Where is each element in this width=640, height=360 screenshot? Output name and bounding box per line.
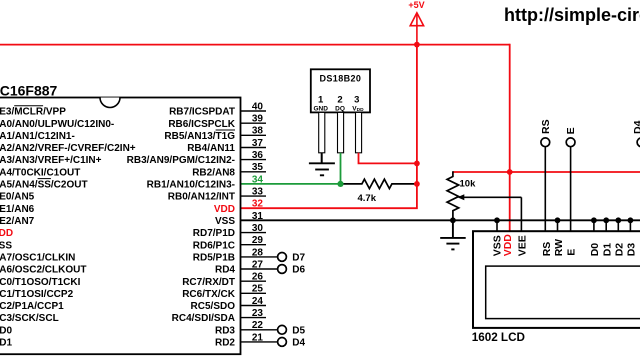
ground (DS18B20) xyxy=(309,163,335,175)
pin 17 RC2/P1A/CCP1 xyxy=(0,301,64,312)
svg-text:RB5/AN13/T1G: RB5/AN13/T1G xyxy=(164,131,235,142)
pin 40 RB7/ICSPDAT xyxy=(169,101,266,117)
svg-text:DS18B20: DS18B20 xyxy=(319,74,361,84)
pin 35 RB2/AN8 xyxy=(192,162,266,178)
svg-text:RC5/SDO: RC5/SDO xyxy=(191,301,236,312)
svg-text:RD5/P1B: RD5/P1B xyxy=(193,253,235,264)
terminal RS xyxy=(544,147,546,231)
svg-text:RE3/MCLR/VPP: RE3/MCLR/VPP xyxy=(0,107,66,118)
DS18B20 pin 1 lead xyxy=(319,112,325,152)
pin 3 RA1/AN1/C12IN1- xyxy=(0,131,75,142)
svg-text:RD1: RD1 xyxy=(0,338,12,349)
svg-text:RD6/P1C: RD6/P1C xyxy=(193,240,235,251)
pin 2 RA0/AN0/ULPWU/C12IN0- xyxy=(0,119,114,130)
svg-text:3: 3 xyxy=(354,95,359,106)
pin 26 RC7/RX/DT xyxy=(182,272,266,288)
svg-text:VEE: VEE xyxy=(516,235,528,256)
svg-text:D1: D1 xyxy=(602,243,614,257)
pin 28 RD5/P1B xyxy=(193,247,306,263)
pin 10 RE2/AN7 xyxy=(0,216,35,227)
svg-text:RS: RS xyxy=(541,242,553,257)
svg-text:RW: RW xyxy=(553,239,565,256)
IC notch xyxy=(100,98,120,108)
pin 7 RA5/AN4/SS/C2OUT xyxy=(0,179,88,191)
LCD pin VEE wire from pot wiper xyxy=(520,197,522,231)
LCD pin D2 wire (grounded) xyxy=(617,220,619,231)
pot wiper arrow xyxy=(463,196,522,198)
svg-text:RA0/AN0/ULPWU/C12IN0-: RA0/AN0/ULPWU/C12IN0- xyxy=(0,119,114,130)
svg-text:RB6/ICSPCLK: RB6/ICSPCLK xyxy=(168,119,235,130)
pin 30 RD7/P1D xyxy=(193,223,266,239)
svg-text:D7: D7 xyxy=(292,253,305,264)
svg-text:23: 23 xyxy=(252,308,264,319)
pin 21 RD2 xyxy=(215,332,306,348)
svg-text:VDD: VDD xyxy=(0,228,13,239)
svg-text:10k: 10k xyxy=(460,178,477,189)
pin 20 RD1 xyxy=(0,338,12,349)
LCD pin VSS wire xyxy=(496,220,498,231)
svg-text:37: 37 xyxy=(252,138,264,149)
pin 13 RA7/OSC1/CLKIN xyxy=(0,253,75,264)
svg-text:RC1/T1OSI/CCP2: RC1/T1OSI/CCP2 xyxy=(0,289,74,300)
pin 6 RA4/T0CKI/C1OUT xyxy=(0,167,80,178)
terminal D4 (clipped at edge) xyxy=(637,138,640,147)
svg-text:27: 27 xyxy=(252,259,264,270)
pin 14 RA6/OSC2/CLKOUT xyxy=(0,265,86,276)
pin 33 RB0/AN12/INT xyxy=(168,187,266,203)
node: pot bottom on ground bus xyxy=(450,217,456,223)
svg-text:RE0/AN5: RE0/AN5 xyxy=(0,192,35,203)
pin 15 RC0/T1OSO/T1CKI xyxy=(0,277,81,288)
pin 39 RB6/ICSPCLK xyxy=(168,114,266,130)
svg-text:RE1/AN6: RE1/AN6 xyxy=(0,204,35,215)
pin 8 RE0/AN5 xyxy=(0,192,35,203)
svg-text:RB1/AN10/C12IN3-: RB1/AN10/C12IN3- xyxy=(147,180,235,191)
wire VDD sensor pin 3 to +5V branch xyxy=(359,153,417,164)
wire GND from sensor pin 1 xyxy=(321,153,323,164)
svg-text:RA3/AN3/VREF+/C1IN+: RA3/AN3/VREF+/C1IN+ xyxy=(0,155,102,166)
svg-text:RA7/OSC1/CLKIN: RA7/OSC1/CLKIN xyxy=(0,253,75,264)
svg-text:RA5/AN4/SS/C2OUT: RA5/AN4/SS/C2OUT xyxy=(0,180,88,191)
svg-text:RB3/AN9/PGM/C12IN2-: RB3/AN9/PGM/C12IN2- xyxy=(127,155,235,166)
svg-text:29: 29 xyxy=(252,235,264,246)
LCD screen xyxy=(486,266,640,319)
svg-text:RS: RS xyxy=(540,119,552,134)
svg-text:RE2/AN7: RE2/AN7 xyxy=(0,216,35,227)
pin 31 VSS xyxy=(215,211,263,227)
node: +5V rail junction xyxy=(414,42,420,48)
wire +5V top rail xyxy=(0,44,510,46)
svg-text:21: 21 xyxy=(252,332,264,343)
pin 23 RC4/SDI/SDA xyxy=(172,308,266,324)
IC U1 PIC16F887 body xyxy=(0,98,241,355)
pin 27 RD4 xyxy=(215,259,306,275)
svg-text:VDD: VDD xyxy=(502,234,514,257)
svg-text:RB0/AN12/INT: RB0/AN12/INT xyxy=(168,192,235,203)
svg-text:RD3: RD3 xyxy=(215,325,235,336)
wire RB1 (pin34) to DQ (green) xyxy=(241,183,341,185)
wire +5V vertical branch (pull-up / sensor VDD / PIC VDD) xyxy=(241,45,417,209)
svg-text:35: 35 xyxy=(252,162,264,173)
svg-text:RC4/SDI/SDA: RC4/SDI/SDA xyxy=(172,313,235,324)
pin 38 RB5/AN13/T1G xyxy=(164,126,266,142)
pin 24 RC5/SDO xyxy=(191,296,266,312)
svg-text:D4: D4 xyxy=(632,120,640,134)
svg-text:RD4: RD4 xyxy=(215,265,235,276)
svg-text:22: 22 xyxy=(252,320,264,331)
pin 4 RA2/AN2/VREF-/CVREF/C2IN+ xyxy=(0,143,136,154)
svg-text:4.7k: 4.7k xyxy=(358,193,377,204)
terminal E xyxy=(570,147,572,231)
+5V power symbol xyxy=(410,13,423,45)
pin 37 RB4/AN11 xyxy=(187,138,266,154)
node: +5V / LCD VDD junction xyxy=(507,169,513,175)
svg-text:1: 1 xyxy=(318,95,324,106)
pin 11 VDD xyxy=(0,228,13,239)
svg-text:D6: D6 xyxy=(292,265,305,276)
LCD pin D0 wire (grounded) xyxy=(593,220,595,231)
svg-text:D5: D5 xyxy=(292,326,305,337)
wire VSS ground bus (pin31 to LCD) xyxy=(241,219,640,221)
LCD module 1602 body xyxy=(473,231,640,328)
pin 5 RA3/AN3/VREF+/C1IN+ xyxy=(0,155,102,166)
pin 36 RB3/AN9/PGM/C12IN2- xyxy=(127,150,266,166)
svg-text:E: E xyxy=(565,127,577,134)
sensor U2 DS18B20 body xyxy=(311,69,370,112)
DS18B20 pin 3 lead xyxy=(356,112,362,152)
DS18B20 pin 2 lead xyxy=(338,112,344,152)
svg-text:RA6/OSC2/CLKOUT: RA6/OSC2/CLKOUT xyxy=(0,265,86,276)
svg-text:32: 32 xyxy=(252,199,264,210)
svg-text:RB2/AN8: RB2/AN8 xyxy=(192,167,235,178)
svg-text:RC0/T1OSO/T1CKI: RC0/T1OSO/T1CKI xyxy=(0,277,81,288)
wire +5V to pot top (red) xyxy=(453,171,640,173)
svg-text:RC6/TX/CK: RC6/TX/CK xyxy=(182,289,236,300)
pin 16 RC1/T1OSI/CCP2 xyxy=(0,289,74,300)
svg-text:2: 2 xyxy=(337,95,342,106)
svg-text:36: 36 xyxy=(252,150,264,161)
svg-text:+5V: +5V xyxy=(408,0,424,10)
svg-text:31: 31 xyxy=(252,211,264,222)
svg-text:25: 25 xyxy=(252,284,264,295)
svg-text:VSS: VSS xyxy=(215,216,235,227)
svg-text:D2: D2 xyxy=(614,243,626,257)
node: sensor VDD junction xyxy=(414,161,420,167)
svg-text:D0: D0 xyxy=(589,243,601,257)
svg-text:RA2/AN2/VREF-/CVREF/C2IN+: RA2/AN2/VREF-/CVREF/C2IN+ xyxy=(0,143,136,154)
pin 9 RE1/AN6 xyxy=(0,204,35,215)
pin 1 RE3/MCLR/VPP xyxy=(0,106,66,118)
svg-text:RC3/SCK/SCL: RC3/SCK/SCL xyxy=(0,313,59,324)
svg-text:VSS: VSS xyxy=(0,240,12,251)
svg-text:RD2: RD2 xyxy=(215,338,235,349)
svg-text:RD0: RD0 xyxy=(0,325,12,336)
ground (pot) xyxy=(440,220,466,249)
svg-text:RC2/P1A/CCP1: RC2/P1A/CCP1 xyxy=(0,301,64,312)
svg-text:39: 39 xyxy=(252,114,264,125)
svg-text:24: 24 xyxy=(252,296,264,307)
svg-text:40: 40 xyxy=(252,101,264,112)
pin 12 VSS xyxy=(0,240,12,251)
resistor R1 4.7k (pull-up) xyxy=(341,179,417,188)
svg-text:1602 LCD: 1602 LCD xyxy=(472,331,525,344)
svg-text:E: E xyxy=(566,249,578,256)
wire DQ (green) sensor pin 2 down xyxy=(340,153,342,184)
svg-text:RA1/AN1/C12IN1-: RA1/AN1/C12IN1- xyxy=(0,131,75,142)
wire +5V rail drop to LCD VDD xyxy=(509,44,511,232)
pin 29 RD6/P1C xyxy=(193,235,266,251)
node: DQ junction xyxy=(337,181,343,187)
svg-text:28: 28 xyxy=(252,247,264,258)
svg-text:33: 33 xyxy=(252,187,264,198)
pin 22 RD3 xyxy=(215,320,306,336)
svg-text:26: 26 xyxy=(252,272,264,283)
pin 18 RC3/SCK/SCL xyxy=(0,313,59,324)
node: pull-up to +5V junction xyxy=(414,181,420,187)
LCD pin D1 wire (grounded) xyxy=(605,220,607,231)
svg-text:GND: GND xyxy=(313,105,328,112)
svg-text:RB7/ICSPDAT: RB7/ICSPDAT xyxy=(169,107,235,118)
pin 25 RC6/TX/CK xyxy=(182,284,266,300)
pin 19 RD0 xyxy=(0,325,12,336)
potentiometer R2 10k xyxy=(447,171,459,220)
svg-text:RD7/P1D: RD7/P1D xyxy=(193,228,235,239)
svg-text:RA4/T0CKI/C1OUT: RA4/T0CKI/C1OUT xyxy=(0,167,80,178)
svg-text:30: 30 xyxy=(252,223,264,234)
svg-text:34: 34 xyxy=(252,174,264,185)
LCD pin RW wire (grounded) xyxy=(557,220,559,231)
pin 32 VDD xyxy=(214,199,264,215)
pin 34 RB1/AN10/C12IN3- xyxy=(147,174,264,190)
LCD pin D3 wire (grounded) xyxy=(629,220,631,231)
svg-text:RC7/RX/DT: RC7/RX/DT xyxy=(182,277,235,288)
svg-text:D3: D3 xyxy=(626,243,638,257)
svg-text:D4: D4 xyxy=(292,338,305,349)
svg-text:38: 38 xyxy=(252,126,264,137)
svg-text:PIC16F887: PIC16F887 xyxy=(0,82,58,98)
svg-text:RB4/AN11: RB4/AN11 xyxy=(187,143,235,154)
svg-text:DQ: DQ xyxy=(335,105,345,112)
svg-text:http://simple-circuit.com/: http://simple-circuit.com/ xyxy=(504,5,640,25)
svg-text:VDD: VDD xyxy=(214,204,235,215)
